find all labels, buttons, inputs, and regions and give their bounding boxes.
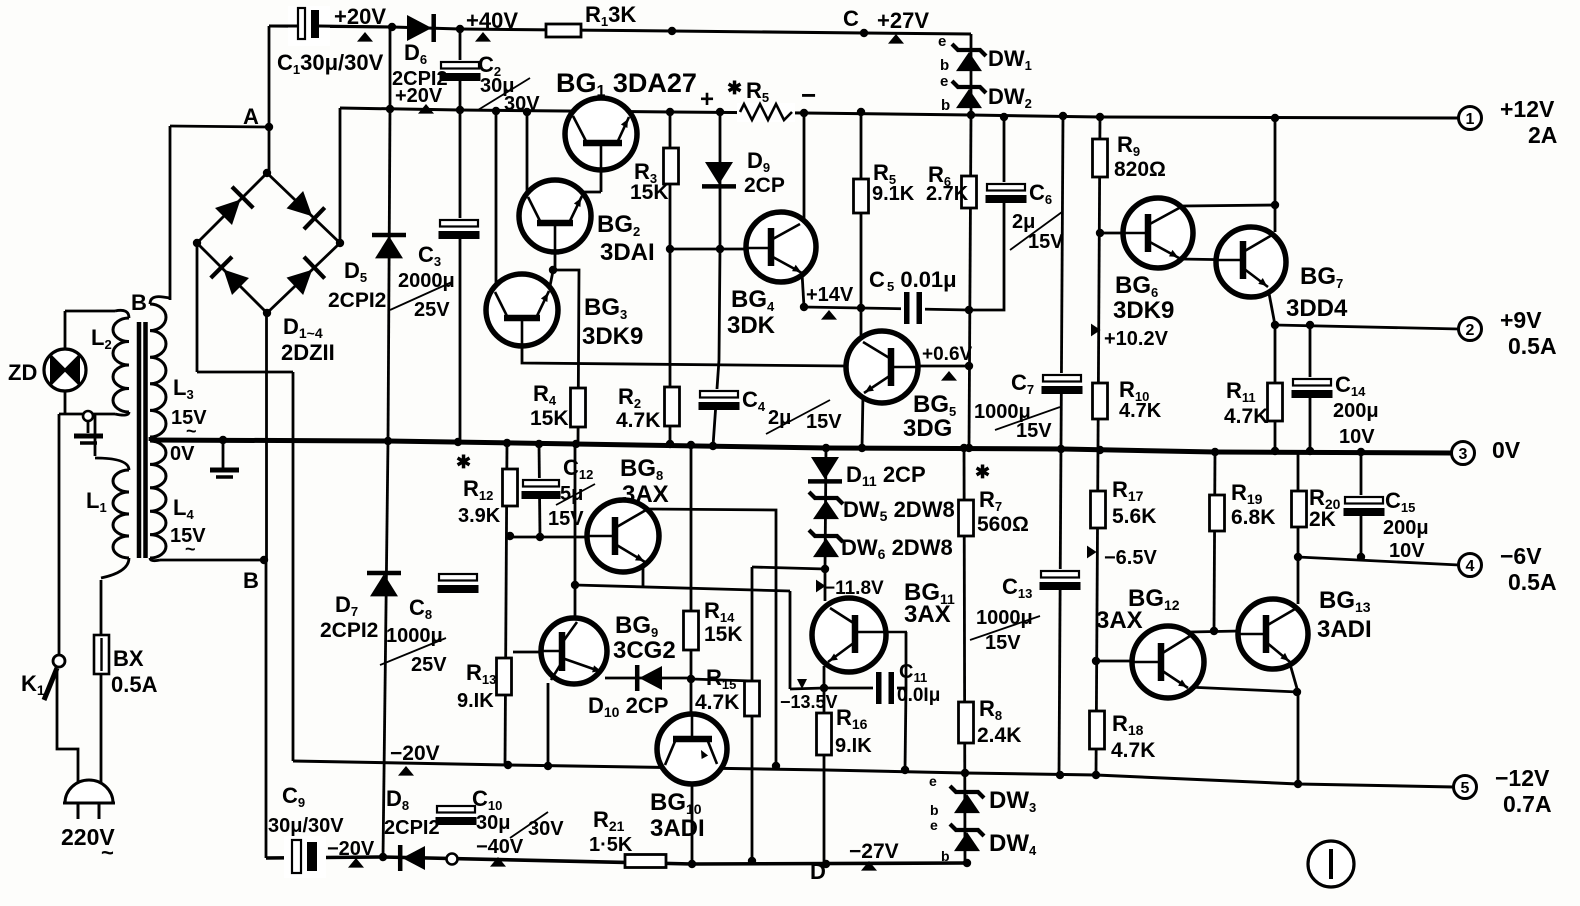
svg-text:4.7K: 4.7K: [1224, 405, 1268, 428]
svg-text:5: 5: [1461, 780, 1470, 797]
svg-text:2CPI2: 2CPI2: [384, 817, 440, 839]
svg-text:DW5 2DW8: DW5 2DW8: [843, 497, 955, 524]
svg-text:15K: 15K: [630, 181, 669, 204]
svg-text:3CG2: 3CG2: [613, 637, 676, 664]
svg-text:−20V: −20V: [390, 742, 440, 765]
svg-text:A: A: [243, 104, 259, 129]
svg-text:3AX: 3AX: [622, 481, 669, 508]
svg-text:25V: 25V: [411, 654, 447, 676]
svg-text:b: b: [940, 57, 949, 74]
svg-text:2CPI2: 2CPI2: [320, 619, 378, 642]
svg-text:2A: 2A: [1528, 122, 1557, 148]
svg-text:+: +: [700, 86, 714, 113]
svg-text:2K: 2K: [1309, 508, 1336, 531]
svg-text:1000μ: 1000μ: [976, 607, 1033, 629]
svg-text:1: 1: [1466, 111, 1475, 128]
svg-text:2μ: 2μ: [768, 407, 791, 429]
svg-text:15V: 15V: [1016, 420, 1052, 442]
svg-text:D11 2CP: D11 2CP: [846, 462, 926, 489]
svg-text:200μ: 200μ: [1383, 517, 1429, 539]
svg-text:9.IK: 9.IK: [835, 735, 872, 757]
svg-text:10V: 10V: [1339, 426, 1375, 448]
svg-text:~: ~: [186, 421, 197, 441]
svg-text:5 0.01μ: 5 0.01μ: [887, 267, 957, 294]
svg-text:−12V: −12V: [1495, 765, 1550, 791]
svg-text:D: D: [810, 859, 826, 884]
svg-text:820Ω: 820Ω: [1114, 158, 1166, 181]
svg-text:B: B: [243, 568, 259, 593]
svg-text:+40V: +40V: [466, 8, 518, 33]
svg-text:15V: 15V: [985, 632, 1021, 654]
svg-text:BX: BX: [113, 646, 144, 671]
svg-text:BG1 3DA27: BG1 3DA27: [556, 68, 697, 100]
svg-text:3ADI: 3ADI: [650, 815, 705, 842]
svg-text:2.7K: 2.7K: [926, 183, 969, 205]
svg-text:3.9K: 3.9K: [458, 505, 501, 527]
svg-text:+20V: +20V: [334, 4, 386, 29]
svg-text:200μ: 200μ: [1333, 400, 1379, 422]
svg-text:b: b: [930, 802, 939, 818]
svg-text:B: B: [131, 290, 147, 315]
svg-text:9.IK: 9.IK: [457, 690, 494, 712]
svg-text:3DD4: 3DD4: [1286, 295, 1348, 322]
svg-text:5μ: 5μ: [560, 483, 583, 505]
svg-text:15V: 15V: [806, 411, 842, 433]
svg-text:+0.6V: +0.6V: [922, 344, 973, 365]
svg-text:+27V: +27V: [877, 8, 929, 33]
svg-text:2000μ: 2000μ: [398, 270, 455, 292]
svg-text:0V: 0V: [1492, 437, 1521, 463]
svg-text:15V: 15V: [1028, 231, 1064, 253]
svg-text:560Ω: 560Ω: [977, 513, 1029, 536]
svg-text:+20V: +20V: [395, 85, 443, 107]
svg-text:25V: 25V: [414, 299, 450, 321]
svg-text:0.0Iμ: 0.0Iμ: [897, 685, 940, 706]
svg-text:2CPI2: 2CPI2: [328, 289, 386, 312]
svg-text:✱: ✱: [975, 462, 990, 482]
svg-text:0.5A: 0.5A: [1508, 333, 1557, 359]
svg-text:30V: 30V: [528, 818, 564, 840]
svg-text:4.7K: 4.7K: [695, 691, 739, 714]
svg-text:2μ: 2μ: [1012, 211, 1035, 233]
svg-text:e: e: [930, 817, 938, 833]
svg-text:DW6 2DW8: DW6 2DW8: [841, 535, 953, 562]
svg-text:−13.5V: −13.5V: [780, 692, 838, 712]
svg-text:b: b: [941, 848, 950, 864]
svg-text:2DZII: 2DZII: [281, 340, 335, 365]
svg-text:1·5K: 1·5K: [589, 834, 633, 856]
svg-text:−6.5V: −6.5V: [1104, 547, 1157, 569]
svg-text:ZD: ZD: [8, 360, 37, 385]
svg-text:0.5A: 0.5A: [111, 672, 158, 697]
svg-text:−20V: −20V: [327, 838, 375, 860]
svg-text:15K: 15K: [704, 623, 743, 646]
svg-text:b: b: [941, 97, 950, 114]
svg-text:C: C: [869, 267, 885, 292]
svg-text:4.7K: 4.7K: [1119, 400, 1162, 422]
svg-text:✱: ✱: [727, 78, 742, 98]
svg-text:0.7A: 0.7A: [1503, 791, 1552, 817]
svg-text:4.7K: 4.7K: [1111, 739, 1155, 762]
svg-text:15K: 15K: [530, 407, 569, 430]
svg-text:−27V: −27V: [849, 840, 899, 863]
svg-text:+12V: +12V: [1500, 96, 1555, 122]
svg-text:3AX: 3AX: [1096, 607, 1143, 634]
svg-text:R13K: R13K: [585, 2, 636, 29]
svg-text:~: ~: [185, 539, 196, 559]
svg-text:2CP: 2CP: [744, 174, 785, 197]
svg-text:−: −: [801, 80, 816, 110]
svg-text:+14V: +14V: [806, 284, 854, 306]
svg-text:~: ~: [101, 840, 114, 865]
svg-text:30μ/30V: 30μ/30V: [268, 815, 344, 837]
svg-text:4.7K: 4.7K: [616, 409, 660, 432]
svg-text:C: C: [843, 6, 859, 31]
svg-text:3DK: 3DK: [727, 312, 776, 339]
svg-text:3AX: 3AX: [904, 601, 951, 628]
svg-text:2.4K: 2.4K: [977, 724, 1021, 747]
svg-text:−11.8V: −11.8V: [824, 578, 884, 599]
svg-text:15V: 15V: [548, 508, 584, 530]
svg-text:0.5A: 0.5A: [1508, 569, 1557, 595]
svg-text:6.8K: 6.8K: [1231, 506, 1275, 529]
svg-text:−6V: −6V: [1500, 543, 1542, 569]
svg-text:+10.2V: +10.2V: [1104, 328, 1169, 350]
svg-text:e: e: [938, 33, 946, 50]
svg-text:0V: 0V: [170, 443, 195, 465]
svg-text:4: 4: [1466, 558, 1475, 575]
svg-text:e: e: [940, 73, 948, 90]
svg-text:3DAI: 3DAI: [600, 239, 655, 266]
svg-text:5.6K: 5.6K: [1112, 505, 1156, 528]
svg-text:30μ: 30μ: [476, 812, 510, 834]
svg-text:3: 3: [1459, 446, 1468, 463]
svg-text:3ADI: 3ADI: [1317, 616, 1372, 643]
svg-text:+9V: +9V: [1500, 307, 1542, 333]
svg-text:1000μ: 1000μ: [386, 625, 443, 647]
svg-text:3DK9: 3DK9: [582, 323, 643, 350]
svg-text:e: e: [929, 773, 937, 789]
svg-text:9.1K: 9.1K: [872, 183, 915, 205]
svg-text:−40V: −40V: [476, 836, 524, 858]
svg-text:✱: ✱: [456, 452, 471, 472]
svg-text:10V: 10V: [1389, 540, 1425, 562]
svg-text:30V: 30V: [504, 93, 540, 115]
svg-text:3DK9: 3DK9: [1113, 297, 1174, 324]
svg-text:D10 2CP: D10 2CP: [588, 693, 668, 720]
svg-text:2: 2: [1466, 322, 1475, 339]
svg-text:3DG: 3DG: [903, 415, 952, 442]
